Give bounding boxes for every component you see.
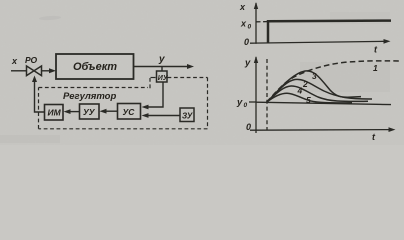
svg-text:ИУ: ИУ <box>158 75 169 82</box>
svg-text:4: 4 <box>297 86 303 96</box>
svg-text:0: 0 <box>244 37 249 47</box>
svg-text:x: x <box>11 56 18 66</box>
svg-text:2: 2 <box>302 79 308 89</box>
svg-text:у: у <box>236 97 243 108</box>
svg-text:ИМ: ИМ <box>48 108 62 118</box>
svg-text:x: x <box>239 2 246 12</box>
svg-text:3: 3 <box>312 71 317 81</box>
svg-text:x: x <box>240 19 247 29</box>
svg-text:УУ: УУ <box>83 107 96 117</box>
svg-text:Объект: Объект <box>73 61 117 73</box>
svg-text:0: 0 <box>246 122 251 132</box>
svg-text:5: 5 <box>306 95 311 105</box>
svg-text:РО: РО <box>25 55 37 65</box>
svg-text:0: 0 <box>248 24 252 31</box>
svg-text:0: 0 <box>244 102 248 109</box>
svg-text:1: 1 <box>373 63 378 73</box>
svg-text:ЗУ: ЗУ <box>182 112 193 121</box>
svg-text:Регулятор: Регулятор <box>63 91 116 102</box>
svg-text:у: у <box>244 58 251 69</box>
svg-text:у: у <box>158 54 165 65</box>
svg-text:УС: УС <box>123 107 136 117</box>
